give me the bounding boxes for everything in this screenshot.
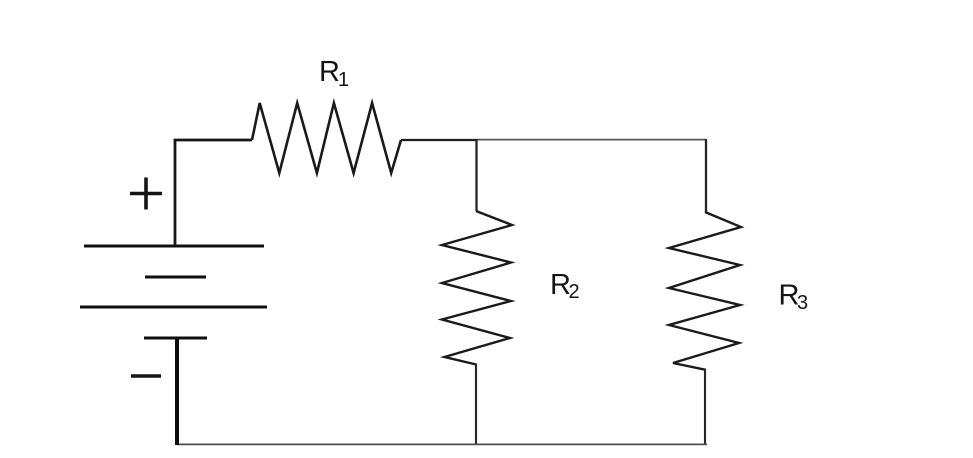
svg-text:2: 2 xyxy=(569,281,580,303)
svg-text:1: 1 xyxy=(338,69,349,91)
svg-text:R: R xyxy=(319,56,340,88)
svg-text:3: 3 xyxy=(797,292,808,314)
